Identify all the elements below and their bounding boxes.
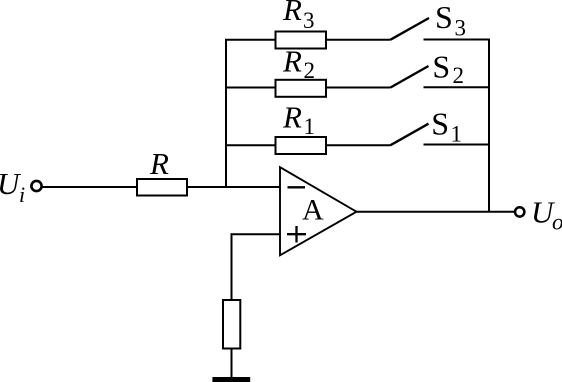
svg-text:R: R: [282, 99, 302, 134]
wire: riser to R1: [225, 144, 276, 146]
op-amp non-inverting input plus sign: [287, 226, 306, 243]
svg-text:3: 3: [303, 8, 315, 33]
op-amp U1: [280, 167, 357, 255]
wire: S2 contact to right bus: [424, 86, 491, 88]
svg-text:i: i: [19, 182, 25, 207]
wire: R to op-amp inverting input: [187, 186, 280, 188]
wire: resistor to ground: [231, 349, 233, 379]
wire: R2 to switch S2: [326, 87, 391, 89]
svg-text:S: S: [432, 49, 450, 85]
wire: S3 contact to right bus: [424, 39, 491, 41]
svg-text:S: S: [435, 0, 453, 35]
input terminal Ui: [31, 181, 41, 191]
switch S3 arm: [391, 18, 430, 40]
svg-text:1: 1: [451, 122, 463, 147]
wire: riser to R2: [225, 87, 276, 89]
resistor R2: [276, 80, 327, 97]
op-amp inverting input minus sign: [288, 186, 306, 188]
wire: left feedback riser: [225, 40, 227, 188]
wire: R3 to switch S3: [326, 39, 391, 41]
switch S1 arm: [391, 124, 429, 146]
wire: down to ground-leg resistor: [231, 233, 233, 300]
resistor R3: [276, 32, 327, 49]
output terminal Uo: [515, 207, 524, 216]
svg-text:o: o: [552, 210, 562, 235]
svg-text:R: R: [282, 44, 302, 79]
wire: right bus: [488, 39, 490, 212]
wire: non-inverting input: [232, 233, 281, 235]
wire: riser to R3: [225, 39, 276, 41]
switch S2 arm: [391, 66, 429, 88]
wire: R1 to switch S1: [326, 144, 391, 146]
resistor R: [137, 179, 187, 196]
svg-text:2: 2: [453, 63, 465, 88]
svg-text:S: S: [431, 106, 449, 142]
svg-text:1: 1: [304, 114, 316, 139]
svg-text:2: 2: [304, 58, 316, 83]
svg-text:R: R: [149, 146, 169, 181]
resistor R1: [276, 137, 327, 154]
wire: Ui terminal to resistor R: [42, 186, 137, 188]
wire: op-amp output: [357, 211, 515, 213]
resistor ground leg: [223, 300, 240, 349]
svg-text:R: R: [282, 0, 302, 27]
svg-text:A: A: [302, 193, 324, 226]
svg-text:3: 3: [455, 16, 467, 41]
wire: S1 contact to right bus: [424, 144, 491, 146]
ground: [212, 377, 250, 382]
